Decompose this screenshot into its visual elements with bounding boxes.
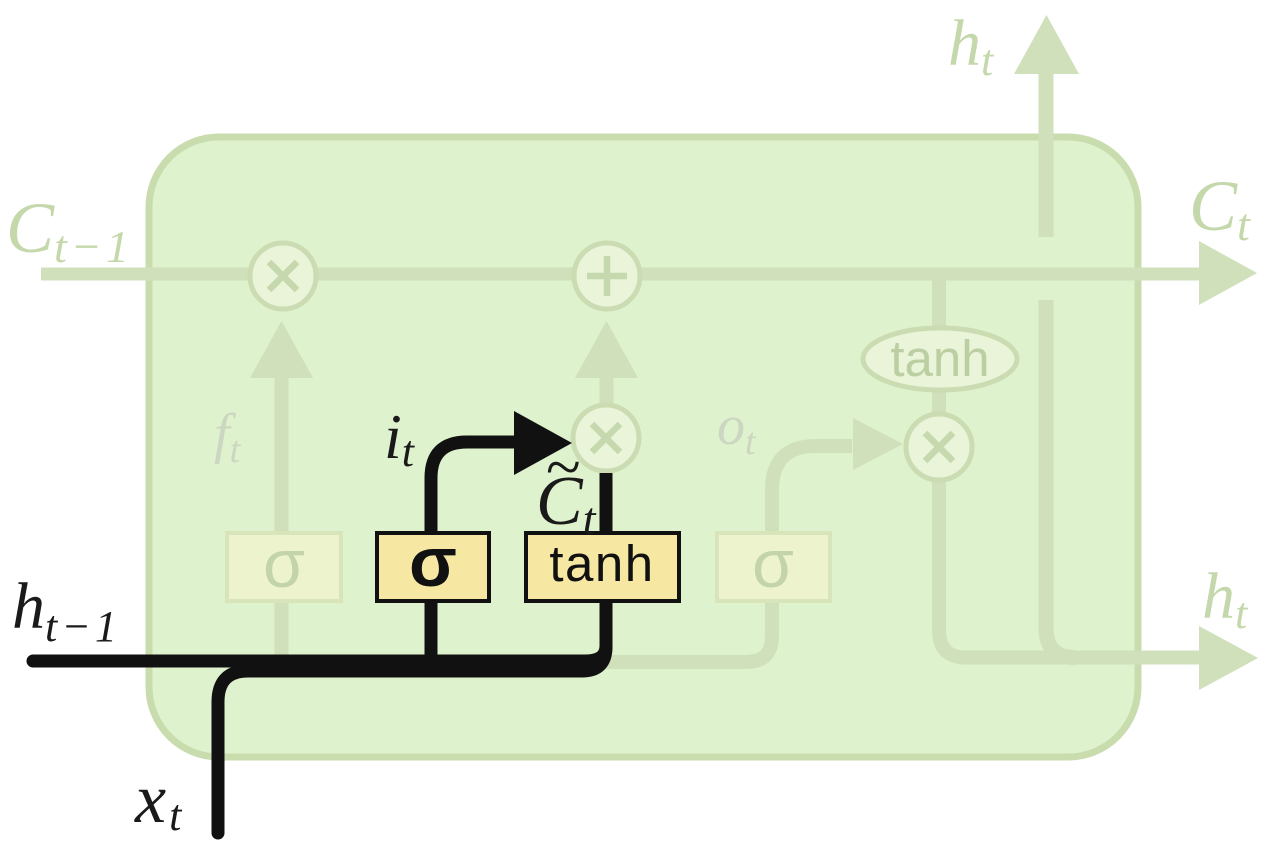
tanh ellipse connectors <box>932 280 946 416</box>
svg-text:σ: σ <box>409 523 457 601</box>
arrowhead into plus-circle <box>575 321 638 378</box>
LSTM cell body <box>149 137 1138 757</box>
plus circle <box>574 243 640 309</box>
multiply circle x2 (input) <box>573 405 639 471</box>
svg-text:Ct: Ct <box>1189 166 1251 250</box>
black wire h_t-1 input <box>33 655 591 668</box>
faded sigma box (output gate) <box>717 526 830 602</box>
svg-text:~: ~ <box>546 431 581 502</box>
svg-text:xt: xt <box>134 761 183 840</box>
arrowhead f_t into x-circle <box>250 321 313 378</box>
black wire i_t sigma riser <box>431 442 516 668</box>
arrowhead h_t top <box>1014 15 1079 74</box>
faded sigma box (forget gate) <box>227 526 341 602</box>
svg-text:tanh: tanh <box>549 535 654 592</box>
riser from x-circle to plus-circle <box>600 378 614 406</box>
yellow tanh box <box>526 533 679 601</box>
multiply circle x3 (output) <box>906 414 972 480</box>
svg-text:σ: σ <box>752 526 794 602</box>
svg-text:Ct−1: Ct−1 <box>6 188 133 272</box>
arrowhead C_t output <box>1199 241 1257 305</box>
svg-text:ht: ht <box>1202 560 1249 638</box>
cell state line C <box>41 268 1200 281</box>
black wire x_t input <box>218 610 606 833</box>
black arrowhead i_t into x-circle <box>514 411 572 475</box>
svg-text:ht: ht <box>948 7 995 85</box>
tanh ellipse <box>863 328 1017 390</box>
arrowhead h_t right <box>1199 626 1258 690</box>
svg-text:σ: σ <box>263 526 305 602</box>
f_t riser <box>275 378 289 655</box>
yellow sigma box (input gate) <box>377 523 489 601</box>
arrowhead o_t into x-circle <box>853 418 903 470</box>
h_t top riser <box>1046 73 1075 658</box>
o_t path <box>600 446 852 662</box>
multiply circle x1 (forget) <box>250 243 316 309</box>
svg-text:ht−1: ht−1 <box>12 570 121 651</box>
svg-text:tanh: tanh <box>890 330 989 387</box>
h_t output line <box>939 480 1199 658</box>
